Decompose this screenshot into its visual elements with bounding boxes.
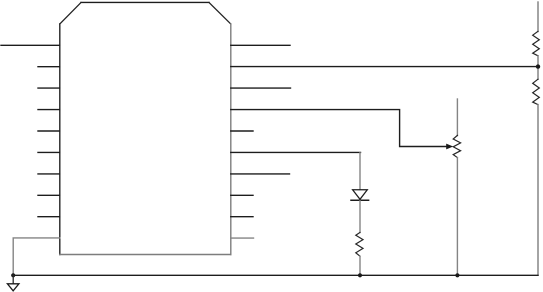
pin right 6 / wire to diode branch — [231, 151, 361, 153]
pin left 4 — [38, 109, 60, 111]
pin left 6 — [38, 151, 60, 153]
IC U1 body: top-right chamfer — [209, 2, 231, 24]
pin left 1 (wire to left edge) — [1, 44, 60, 46]
diode D1 — [353, 190, 368, 200]
pin right 8 (stub) — [231, 194, 253, 196]
wire: top feed to R1 — [537, 2, 539, 32]
IC U1 body: bottom edge — [60, 254, 231, 256]
pin left 7 — [38, 173, 60, 175]
pin right 5 (stub) — [231, 130, 253, 132]
IC U1 body: top-left chamfer — [60, 2, 81, 24]
pin left 10 / wire elbow to ground rail — [13, 238, 60, 275]
IC U1 body: top edge — [81, 1, 209, 3]
pin right 9 (stub) — [231, 216, 253, 218]
pin left 3 — [38, 87, 60, 89]
wire: R3 bottom to rail — [359, 256, 361, 275]
IC U1 body: right edge — [230, 24, 232, 255]
wiper arrowhead — [446, 144, 453, 150]
ground — [7, 284, 19, 291]
IC U1 body: left edge — [59, 24, 61, 255]
pin left 5 — [38, 130, 60, 132]
wire: R1 to divider node — [537, 56, 539, 67]
node: divider junction — [536, 64, 540, 68]
wire: potentiometer bottom to rail — [456, 158, 458, 276]
pin right 3 (stub) — [231, 87, 291, 89]
node: potentiometer to rail junction — [455, 273, 459, 277]
pin right 1 (stub) — [231, 44, 290, 46]
resistor R2 (lower right) — [533, 79, 540, 104]
wire: R2 bottom down to ground rail — [537, 105, 539, 276]
pin right 2 / wire to divider node — [231, 66, 538, 68]
pin right 10 (stub) — [231, 237, 254, 239]
ground rail wire — [13, 274, 538, 276]
wire: potentiometer top stub — [456, 99, 458, 136]
diode D1 cathode bar — [351, 199, 369, 201]
pin left 9 — [38, 216, 60, 218]
resistor R1 (upper right) — [533, 31, 540, 56]
wire: diode cathode to R3 — [359, 201, 361, 233]
wire: divider node to R2 — [537, 67, 539, 80]
pin left 8 — [38, 194, 60, 196]
wire: junction to ground symbol — [12, 275, 14, 283]
wire: down to diode anode — [359, 153, 361, 190]
potentiometer RV1 — [453, 135, 460, 157]
pin left 2 — [38, 66, 60, 68]
node: ground junction — [11, 273, 15, 277]
resistor R3 (diode branch) — [356, 232, 363, 256]
pin right 7 (stub) — [231, 173, 290, 175]
pin right 4 / wire to potentiometer wiper — [231, 110, 447, 147]
node: diode branch to rail junction — [358, 273, 362, 277]
